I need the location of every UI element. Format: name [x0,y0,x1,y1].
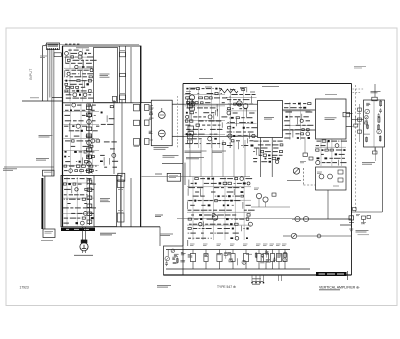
label under CH2 [100,233,116,235]
value label [341,140,347,142]
value label [84,203,87,205]
value label [64,222,69,224]
value label [201,232,204,234]
label mid lower [163,156,179,158]
interstage cluster [251,188,290,207]
value label R186 [217,254,221,255]
value label [230,89,235,91]
dashed link to lamps [304,184,316,186]
value label [201,237,206,239]
value label R184 [188,255,193,257]
ground ticks below edge [251,275,264,283]
output stage V5 label [243,244,248,246]
capacitor C112 [64,156,66,158]
value label [66,62,70,64]
wire input bus 4 [53,50,55,176]
output lower rail [166,268,310,270]
wire J1 left branch [43,46,47,101]
capacitor C117 [68,183,71,185]
value label [91,207,97,209]
label row above box [190,87,255,92]
capacitor C161 [200,218,202,220]
value label [86,178,91,180]
transistor Q125 [306,132,310,136]
value label [321,153,324,155]
wire [338,160,340,166]
capacitor C107 [70,110,72,112]
value label [273,140,276,142]
input coupling box [54,53,61,57]
value label [200,195,205,197]
value label [204,107,208,109]
capacitor C110 [65,151,67,153]
wire [246,138,248,143]
resistor R168 [316,149,319,151]
value label [71,145,75,147]
CH2 ladder top [117,180,124,190]
resistor R159 [302,129,305,131]
wire [103,157,105,165]
value label [185,93,190,95]
value label [203,116,206,118]
resistor R118 [85,160,88,163]
resistor R197 [167,249,169,256]
value label [234,182,236,184]
wire delay bus 1 [119,46,121,103]
value label [342,157,345,159]
value label [338,140,339,142]
value label [90,183,96,185]
wire [109,158,111,165]
value label [208,237,209,239]
wire [238,142,240,150]
transistor Q106 [67,72,70,75]
value label [188,200,192,202]
transistor Q110 [88,114,92,118]
wire drop d6 [244,140,246,177]
value label [259,154,263,156]
value label [258,144,264,146]
capacitor C172 [377,113,380,118]
value label [72,90,75,92]
value label [207,124,210,126]
value label [193,195,199,197]
node label upper stub [30,97,39,99]
wire [213,114,215,119]
left band edge heavy [62,46,64,227]
value label [243,131,246,133]
wire [292,130,294,137]
value label [77,140,84,142]
value label [204,128,205,130]
resistor R155 [236,117,239,119]
CH2 ladder wire B [123,188,125,214]
resistor R152 [234,103,237,105]
wire mesh [63,177,94,226]
value label [306,111,313,113]
value label [238,99,241,101]
wire input bus 2 [49,50,51,98]
value label [69,165,75,167]
capacitor C103 [65,80,67,82]
wire mesh [284,102,311,140]
wire [64,70,66,77]
value label [217,223,221,225]
wire input bus 3 [51,50,53,176]
transistor Q121 [227,111,231,115]
value label [75,130,79,132]
transistor Q136 [283,258,287,262]
value label [290,129,293,131]
transistor Q108 [83,93,87,97]
wire +225 run [142,175,251,177]
resistor R190 [265,249,268,257]
capacitor C149 [195,183,197,185]
value label [268,158,271,160]
value label [320,145,325,147]
value label [78,120,83,122]
value label [243,99,250,101]
wire Q485 right [297,235,352,237]
transistor Q493 [293,168,299,174]
value label [263,140,269,142]
transistor Q141 [377,129,382,134]
ganged-switch dashes [65,43,79,45]
inductor L103 [176,258,178,264]
value label [95,170,97,172]
attenuator box 2 [134,120,140,125]
cascode chain 2 [87,178,92,225]
capacitor C120 [186,88,188,90]
resistor R130 [82,198,85,200]
value label [228,187,233,189]
resistor R177 [247,214,250,216]
transistor Q129 [240,177,244,181]
value label [89,212,94,214]
value label [65,56,69,58]
wire [233,189,235,195]
inductor L107 [378,116,380,123]
capacitor C158 [223,205,225,207]
value label [245,178,252,180]
value label [92,130,97,132]
resistor R180 [235,223,239,225]
capacitor C169 [273,257,276,262]
value label [249,140,253,142]
CRT parts ticks [349,207,360,228]
value label [214,232,216,234]
geo side tick 1 [355,116,357,123]
value label [80,178,85,180]
resistor R114 [96,140,100,142]
grid box A label [264,118,274,120]
transistor Q137 [171,249,174,252]
geo center wire [373,100,375,147]
capacitor C150 [219,182,222,184]
value label [206,143,210,145]
value label [69,198,76,200]
resistor R163 [261,150,264,152]
output stage V7 [263,250,268,270]
label partial above box [199,78,213,80]
value label [222,102,225,104]
value label [214,218,218,220]
resistor R178 [188,218,192,220]
resistor R150 [222,143,226,145]
value label [232,195,233,197]
block CH2 bottom extension [121,227,160,246]
value label [80,97,87,99]
value label [322,162,326,164]
capacitor C159 [227,205,229,207]
value label R200 [366,103,370,105]
wire drv out top [172,103,184,105]
resistor R158 [308,103,311,105]
thermistor zigzag [220,89,238,93]
value label [220,178,226,180]
note row 2 [212,151,226,152]
value label [202,88,205,90]
value label [95,165,97,167]
value label [190,204,195,206]
value label [83,207,90,209]
value label [77,212,82,214]
value label [284,120,290,122]
value label [246,117,252,119]
value label [226,195,227,197]
connector J1 shell [47,43,60,50]
value label [301,137,306,139]
wire Q485 left [283,235,291,237]
resistor R166 [272,157,276,159]
value label [191,214,194,216]
transistor Q140 [365,116,368,119]
transistor Q133 [248,222,252,226]
block CH2 preamp outline [61,176,121,227]
resistor R153 [238,103,241,105]
value label [73,59,80,61]
driver label below [154,148,169,150]
resistor R157 [231,140,234,142]
neon lamp B2 [328,174,333,179]
value label [71,62,76,64]
capacitor C115 [101,112,103,114]
value label [82,125,87,127]
value label [200,178,205,180]
output stage V1 [190,250,195,270]
value label [231,218,233,220]
wire mesh [226,88,257,148]
capacitor C134 [286,116,288,118]
value label [65,104,70,106]
output terminal part [343,112,350,117]
capacitor C116 [100,161,103,163]
delay line box L482 [167,173,181,181]
resistor R194 [237,258,239,265]
value label [239,94,243,96]
value label [73,120,77,122]
value label [107,123,113,125]
value label [75,76,82,78]
label under Q493 [287,180,301,182]
transistor Q135 [242,260,246,264]
wire [188,180,190,188]
value label R185 [204,254,208,256]
output stage V2 label [203,244,208,246]
beam dashed line [229,96,231,148]
value label [65,161,70,163]
value label [243,135,248,137]
resistor R102 [67,59,70,61]
value label [75,56,77,58]
value label [65,120,71,122]
capacitor C168 [261,253,264,258]
output stage V10 [283,250,287,270]
resistor R108 [71,86,74,88]
value label [224,232,228,234]
value label [71,212,75,214]
value label [205,120,207,122]
label +225V [155,173,162,175]
value label [217,232,223,234]
value label [83,145,89,147]
value label [232,204,234,206]
capacitor C125 [214,138,217,140]
value label [226,209,232,211]
value label [201,204,205,206]
wire mesh [64,104,100,175]
R term pair bottom [187,135,192,144]
value label [86,66,92,68]
output stage V4 [231,250,235,270]
value label [112,160,118,162]
value label [71,69,76,71]
transistor Q463 [212,215,218,221]
value label [200,143,201,145]
label top right faint [354,67,366,69]
value label [239,122,246,124]
value label [71,52,78,54]
resistor R111 [89,90,92,93]
resistor R137 [215,92,218,94]
label -150V [155,215,163,216]
wire mesh [315,140,346,167]
value label [80,194,85,196]
ground ticks below edge 2 [279,275,282,281]
value label [293,103,296,105]
value label [70,207,73,209]
value label [189,223,192,225]
value label [192,237,194,239]
value label [239,108,242,110]
note row 3 [186,158,204,159]
value label [66,198,68,200]
value label [272,154,277,156]
output stage V7 label [263,244,268,246]
value label [212,88,213,90]
resistor R115 [90,145,93,147]
value label [299,107,302,109]
attenuator box 1 [134,103,140,111]
value label [82,80,87,82]
resistor R127 [63,183,66,185]
wire [202,222,204,227]
transistor Q484 [303,216,308,221]
dashed shield line [354,85,356,212]
resistor R164 [279,151,282,153]
resistor R117 [91,156,94,158]
capacitor C105 [76,90,79,92]
resistor R187 [224,250,228,258]
capacitor C122 [186,112,188,114]
value label [295,129,301,131]
wire B out lower [346,126,353,128]
value label [303,116,308,118]
value label [254,147,260,149]
capacitor C164 [232,228,234,230]
value label [231,94,237,96]
resistor R101 [71,56,74,58]
value label [197,93,199,95]
value label [85,140,89,142]
value label [78,183,82,185]
value label [199,228,201,230]
wire [297,117,299,124]
value label [198,133,205,135]
inductor L101 [255,252,257,258]
resistor R151 [242,89,245,91]
transistor Q134 [235,236,239,240]
value label R188 [228,252,232,254]
wire [246,109,248,117]
neon lamp box [316,167,347,190]
edge part bottom [188,126,194,135]
value label [243,228,245,230]
wire lower signal run [184,135,258,137]
resistor R112 [87,104,91,106]
value label [67,203,70,205]
transistor Q132 [199,223,202,226]
wire [190,113,192,121]
value label [90,188,94,190]
value label [92,104,96,106]
wire geo label stub [375,148,377,162]
value label [87,183,89,185]
capacitor C153 [217,195,219,197]
value label [246,127,249,129]
transistor Q124 [300,119,303,122]
resistor R139 [199,97,203,99]
wire B out upper [346,113,353,115]
value label [273,151,278,153]
value label [65,135,68,137]
transistor Q103 [78,55,82,59]
value label [207,218,213,220]
value label [90,109,94,111]
value label [261,147,268,149]
shield bar [41,178,43,229]
resistor R167 [322,140,326,142]
wire left stub B [4,166,54,168]
value label [210,232,213,234]
value label [241,117,244,119]
transistor Q105 [90,69,93,72]
capacitor C126 [231,117,234,119]
column A top part [113,96,117,101]
title line 2 [319,289,340,291]
value label [71,178,75,180]
value label [289,116,292,118]
